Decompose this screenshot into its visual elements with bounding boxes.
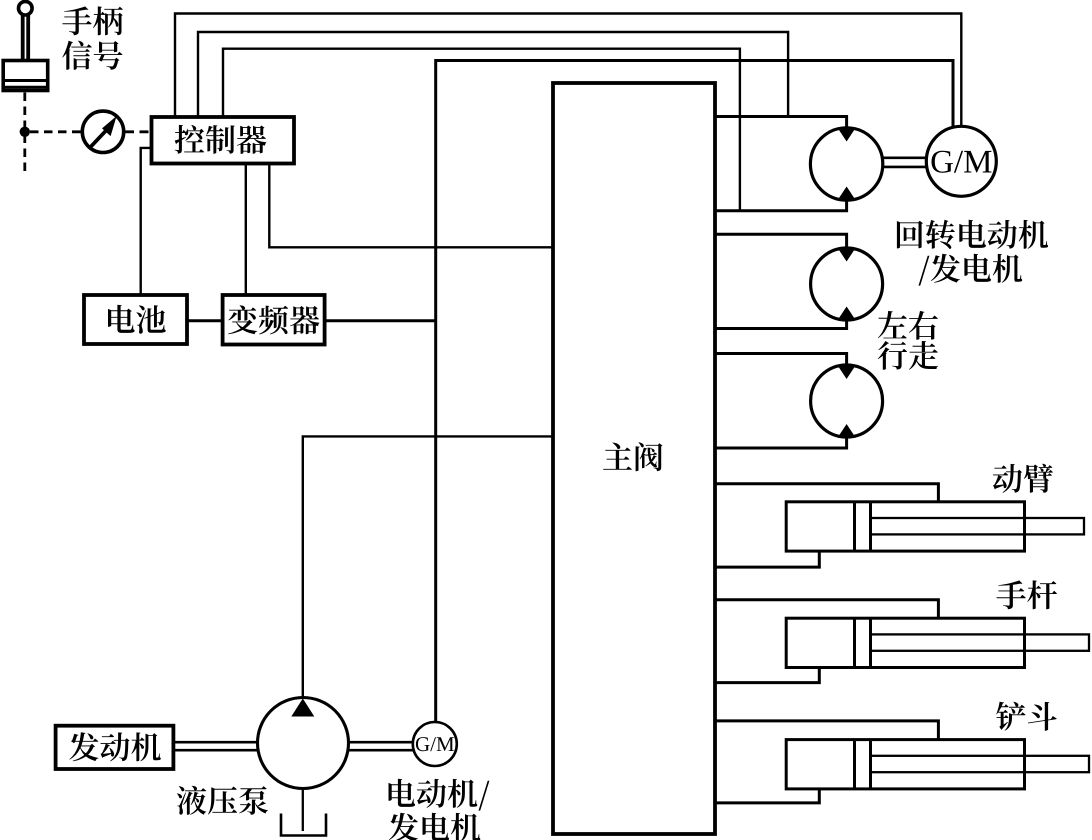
wire main valve to cylinder 1 head side [715,551,819,567]
wire pump to main valve [303,436,553,697]
swing G/M text [932,151,992,173]
joystick base box [3,61,48,91]
power bus wire inverter/pump-GM/swing-GM [436,61,953,723]
sensor needle arrowhead [102,116,117,136]
wire controller to battery [141,148,152,295]
cylinder 3 rod [871,756,1090,772]
wire loop3 controller to swing motor port B [223,49,740,211]
label pump motor/generator line1 [389,779,490,811]
travel hydraulic motor R [811,365,883,437]
travel hydraulic motor L [811,248,883,320]
wire main valve to travel motor L port B [715,318,847,329]
wire main valve to cylinder 2 rod side [715,600,938,618]
inverter box [223,295,325,345]
wire main valve to travel motor R port A [715,354,847,369]
cylinder 2 barrel [786,618,1024,667]
shaft coupling motor to G/M [882,158,926,167]
cylinder 2 piston [855,618,871,667]
wire inverter to bus [325,319,436,322]
label travel line1 [878,311,938,340]
cylinder 2 rod [871,634,1090,650]
cylinder 3 piston [855,740,871,789]
label swing motor/generator line2 [919,254,1023,286]
pump suction line [302,789,304,832]
joystick base inner lines [5,81,46,88]
main valve box [553,83,715,834]
label handle-signal line1 [62,6,122,35]
wire controller to main valve [269,164,553,248]
cylinder 1 barrel [786,502,1024,551]
pilot dashed line to sensor [30,130,81,133]
cylinder 3 barrel [786,740,1024,789]
label travel line2 [878,341,938,370]
wire main valve to cylinder 2 head side [715,668,819,683]
label swing motor/generator line1 [897,220,1048,249]
wire main valve to cylinder 3 rod side [715,721,938,740]
wire main valve to cylinder 1 rod side [715,484,938,502]
battery box [84,295,187,344]
controller box [152,117,295,164]
shaft coupling engine to pump [173,742,258,750]
wire battery to inverter [187,319,223,322]
pump arrow (flow direction) [291,699,314,717]
junction dot [20,127,30,137]
cylinder 1 piston [855,502,871,551]
label arm [997,580,1057,609]
label hydraulic pump [177,786,268,815]
pump G/M circle [413,722,457,766]
swing hydraulic motor [810,128,882,200]
label main valve [603,442,662,471]
wire main valve to cylinder 3 head side [715,789,819,803]
shaft coupling pump to G/M [349,742,414,750]
pump G/M text [416,737,454,751]
engine box [56,726,174,769]
wire loop1 controller to swing G/M [175,14,961,127]
travel motor R arrow top [838,365,856,379]
travel motor R arrow bottom [838,424,856,438]
label engine [69,732,160,761]
cylinder 1 rod [871,518,1085,534]
joystick handle ball [19,1,33,15]
label handle-signal line2 [62,41,122,70]
joystick stick [23,15,29,60]
wire main valve to swing motor port A [715,117,847,131]
wire controller to inverter [245,164,247,296]
pilot dashed line vertical [23,93,26,176]
swing motor arrow bottom [838,187,856,201]
tank symbol [281,814,326,836]
wire main valve to travel motor L port A [715,234,847,250]
label inverter [228,305,319,334]
label pump motor/generator line2 [389,813,480,840]
swing motor arrow top [838,128,856,142]
hydraulic pump circle [258,698,349,789]
wire main valve to travel motor R port B [715,436,847,448]
travel motor L arrow bottom [838,307,856,321]
sensor circle [82,111,123,152]
label battery [108,305,166,334]
wire loop2 controller to swing motor port A [198,32,788,117]
label bucket [996,702,1057,731]
label controller [175,125,267,154]
pilot dashed line to controller [125,130,152,133]
wire main valve to swing motor port B [715,198,847,211]
label boom [993,464,1053,493]
swing G/M circle [926,126,996,196]
travel motor L arrow top [838,248,856,262]
sensor needle [90,129,108,148]
